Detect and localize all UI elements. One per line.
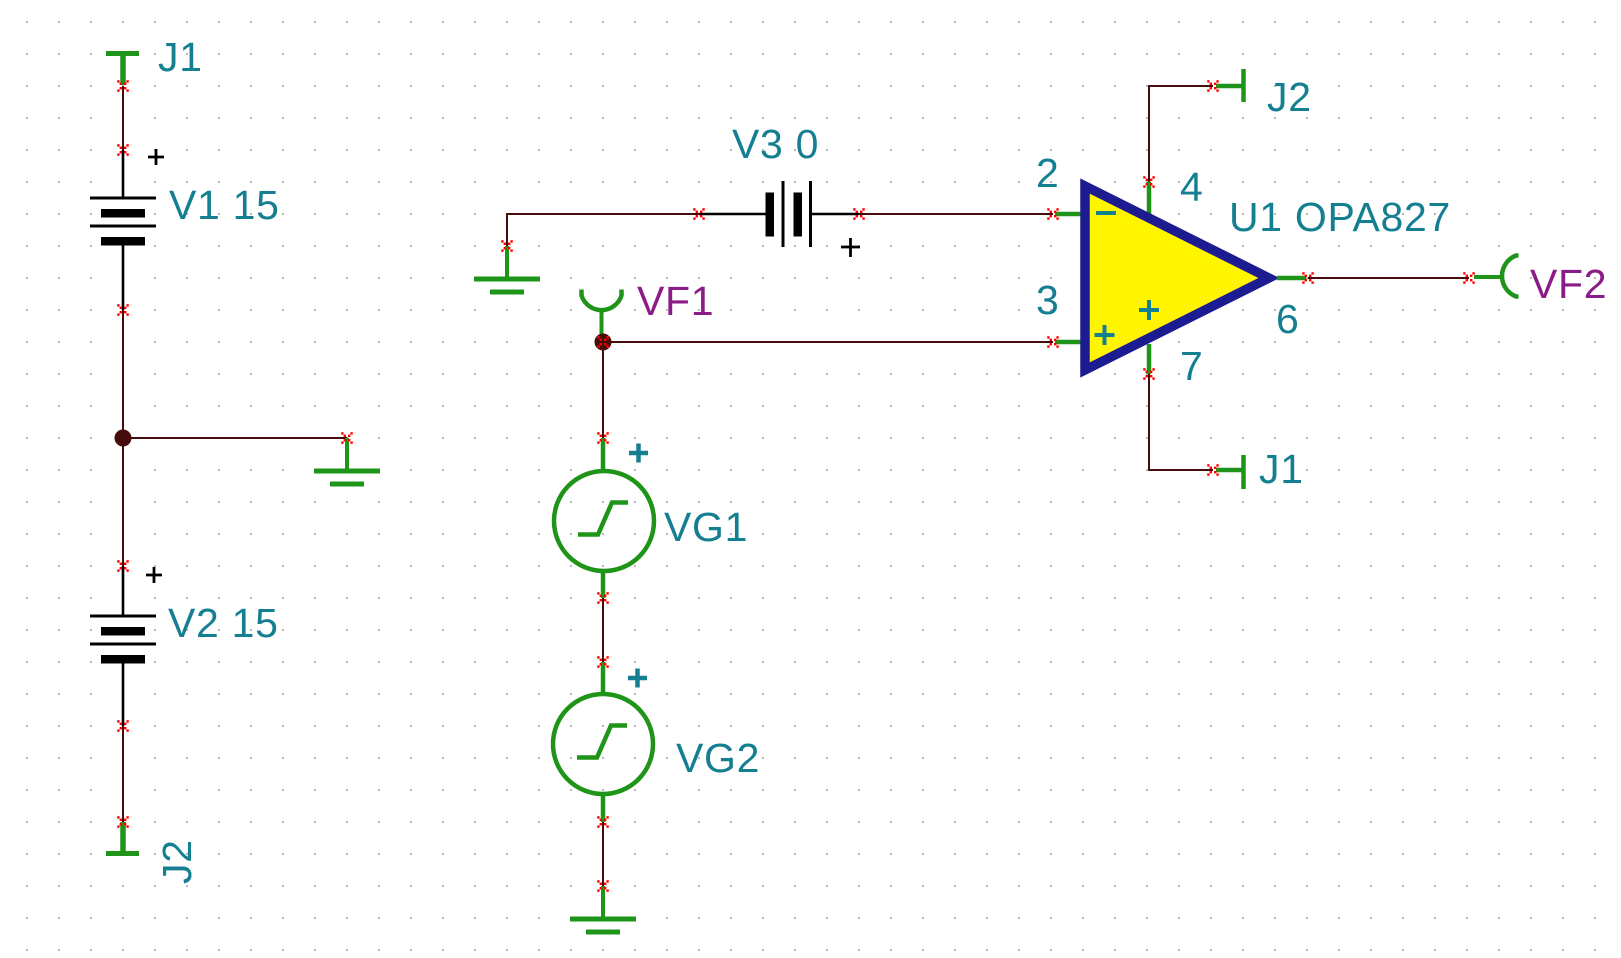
wire V1 bottom to junction A xyxy=(122,310,124,438)
wire op-amp pin 4 to jumper J2 xyxy=(1149,86,1213,182)
svg-text:VG1: VG1 xyxy=(664,504,748,550)
svg-text:7: 7 xyxy=(1180,343,1204,389)
op-amp U1 body xyxy=(1085,186,1269,370)
svg-text:VF1: VF1 xyxy=(637,278,714,324)
op-amp U1 pin 7 stub xyxy=(1147,344,1152,374)
wire V2 bottom to J2 xyxy=(122,726,124,822)
probe VF2 xyxy=(1474,256,1519,297)
wire op-amp pin 7 to jumper J1 xyxy=(1149,374,1213,470)
op-amp plus marker pin 3 xyxy=(1095,325,1115,345)
pin x-mark jumper J1 bottom-right xyxy=(1207,464,1219,476)
svg-text:V3 0: V3 0 xyxy=(732,121,819,167)
pin x-mark node VF1 xyxy=(597,336,609,348)
svg-text:U1 OPA827: U1 OPA827 xyxy=(1229,194,1451,240)
ground at V3 input xyxy=(474,246,540,292)
wire J1 to V1 top xyxy=(122,86,124,150)
svg-text:V2 15: V2 15 xyxy=(168,600,279,646)
battery V1 xyxy=(90,150,156,310)
op-amp U1 pin 2 stub xyxy=(1055,212,1082,217)
op-amp U1 pin 4 stub xyxy=(1147,182,1152,214)
pin x-mark op-amp pin 4 xyxy=(1143,176,1155,188)
junction node A xyxy=(115,430,132,447)
plus sign V1 xyxy=(148,149,164,165)
pin x-mark ground mid-left xyxy=(341,432,353,444)
plus sign V3 xyxy=(841,238,860,257)
ground bottom xyxy=(570,886,636,932)
battery V2 xyxy=(90,566,156,726)
pin x-mark VG2 + xyxy=(597,656,609,668)
pin x-mark V2 + xyxy=(117,560,129,572)
pin x-mark V3 left xyxy=(693,208,705,220)
svg-text:4: 4 xyxy=(1180,164,1204,210)
generator VG2 xyxy=(553,662,653,822)
plus sign VG1 xyxy=(629,444,648,463)
junction node VF1 xyxy=(595,334,612,351)
jumper J2 bottom-left xyxy=(106,822,139,854)
wire node VF1 to VG1 xyxy=(602,342,604,438)
plus sign V2 xyxy=(146,567,162,583)
pin x-mark J2 bottom-left xyxy=(117,816,129,828)
pin x-mark op-amp pin 3 xyxy=(1047,336,1059,348)
svg-text:VG2: VG2 xyxy=(676,735,760,781)
svg-text:VF2: VF2 xyxy=(1530,261,1607,307)
svg-text:J1: J1 xyxy=(158,34,203,80)
battery V3 xyxy=(699,181,859,247)
op-amp minus marker pin 2 xyxy=(1096,211,1116,215)
wire junction A to V2 top xyxy=(122,438,124,566)
jumper J2 top-right xyxy=(1216,69,1244,102)
pin x-mark V2 - xyxy=(117,720,129,732)
svg-text:6: 6 xyxy=(1276,296,1300,342)
generator VG1 xyxy=(554,438,654,598)
wire V3 to op-amp pin 2 xyxy=(859,213,1053,215)
pin x-mark ground at V3 input xyxy=(501,240,513,252)
pin x-mark VG2 - xyxy=(597,816,609,828)
pin x-mark op-amp pin 6 xyxy=(1302,272,1314,284)
op-amp U1 pin 3 stub xyxy=(1055,340,1082,345)
pin x-mark VG1 - xyxy=(597,592,609,604)
wire node VF1 to op-amp pin 3 xyxy=(603,341,1053,343)
probe VF1 xyxy=(582,290,622,339)
wire VG2 to bottom ground xyxy=(602,822,604,886)
svg-text:2: 2 xyxy=(1036,150,1060,196)
plus sign VG2 xyxy=(628,669,647,688)
svg-text:J2: J2 xyxy=(1267,74,1312,120)
wire op-amp output to VF2 xyxy=(1308,277,1469,279)
pin x-mark op-amp pin 7 xyxy=(1143,368,1155,380)
wire left ground to V3 xyxy=(507,214,699,246)
wire junction A to ground xyxy=(123,437,347,439)
pin x-mark probe VF2 xyxy=(1463,272,1475,284)
pin x-mark V1 - xyxy=(117,304,129,316)
wire VG1 to VG2 xyxy=(602,598,604,662)
pin x-mark V1 + xyxy=(117,144,129,156)
pin x-mark jumper J2 top-right xyxy=(1207,80,1219,92)
pin x-mark VG1 + xyxy=(597,432,609,444)
pin x-mark J1 top-left xyxy=(117,80,129,92)
pin x-mark op-amp pin 2 xyxy=(1047,208,1059,220)
op-amp output stub pin 6 xyxy=(1277,276,1306,281)
ground mid-left xyxy=(314,438,380,484)
svg-text:J1: J1 xyxy=(1259,446,1304,492)
svg-text:J2: J2 xyxy=(154,839,200,884)
pin x-mark V3 right xyxy=(853,208,865,220)
svg-text:V1 15: V1 15 xyxy=(169,182,280,228)
pin x-mark ground bottom xyxy=(597,880,609,892)
svg-text:3: 3 xyxy=(1036,277,1060,323)
op-amp plus supply marker xyxy=(1139,300,1159,320)
jumper J1 bottom-right xyxy=(1216,455,1244,489)
jumper J1 top-left xyxy=(106,53,139,85)
